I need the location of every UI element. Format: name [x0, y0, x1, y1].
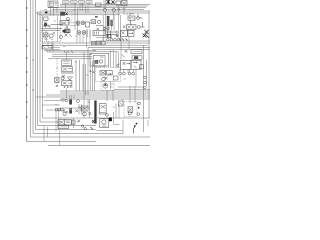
wire down from cluster 2 — [47, 127, 49, 137]
right edge connector wire — [118, 86, 144, 88]
valve rect 2 in B2 — [107, 70, 113, 75]
small X right — [78, 120, 81, 123]
gauge circle bottom manifold — [63, 112, 66, 115]
circle right of D top — [138, 102, 141, 105]
wire motor to return — [59, 130, 61, 146]
lower horizontal bus wires — [60, 90, 150, 92]
bus wire — [47, 51, 92, 53]
wire drops — [63, 95, 72, 100]
wire — [91, 61, 93, 92]
wire elbow — [114, 112, 120, 124]
top label strip — [63, 1, 93, 3]
left mid gauge circle — [97, 20, 100, 23]
dark return stand pipe — [94, 101, 96, 124]
bus wire — [60, 5, 148, 7]
wire — [79, 60, 81, 91]
aux valve dark rects row — [63, 30, 66, 33]
small pilot circle — [118, 9, 120, 11]
left supply bus wire 7 — [43, 16, 61, 119]
aux valve rect 2 — [66, 30, 69, 33]
ladder rungs — [106, 12, 119, 38]
small valve cross — [105, 28, 109, 30]
accumulator frame left — [102, 15, 104, 41]
valve rect in box A — [43, 33, 48, 37]
component ticks on wire — [64, 51, 73, 53]
bottom long return line — [48, 145, 150, 147]
line end tick — [95, 16, 98, 17]
bus wire — [52, 8, 144, 10]
junction block dark — [45, 12, 47, 14]
gauge circle in box B — [67, 17, 70, 20]
valve symbols box2 — [133, 61, 138, 68]
right mid labeled box — [131, 50, 142, 54]
wire — [104, 0, 106, 9]
gauge circle in box A — [49, 34, 53, 38]
wire near bar — [89, 99, 91, 118]
relief valve arrows in box A — [42, 22, 64, 31]
pilot check valve — [55, 78, 59, 83]
cross in B2 — [105, 77, 108, 80]
wire — [94, 61, 96, 92]
lower sub box lines — [60, 126, 68, 128]
wire — [97, 130, 124, 132]
solenoid dark rect lower — [69, 108, 72, 114]
tiny text labels — [44, 8, 134, 133]
manifold tick row — [64, 86, 73, 88]
bottom right connector — [122, 120, 124, 134]
gauge circle near filter — [106, 114, 109, 117]
arrowhead ticks row — [119, 39, 128, 41]
wire — [82, 64, 84, 91]
bus wire — [60, 92, 150, 94]
wire — [73, 118, 75, 128]
filter cross — [100, 105, 106, 112]
right edge circle 3 — [144, 86, 147, 89]
small box left of D — [119, 101, 124, 106]
tick crosses on verticals — [89, 70, 94, 73]
small circle right of box — [117, 64, 119, 66]
bus wire — [36, 12, 150, 14]
junction circle b — [65, 99, 67, 101]
bus wire — [46, 94, 150, 96]
vertical wires right of manifold — [75, 60, 77, 91]
wire — [69, 23, 80, 26]
wire drops from top labels — [51, 3, 131, 30]
bus wire — [60, 98, 150, 100]
accumulator frame right — [119, 15, 121, 41]
inner tick — [120, 102, 123, 105]
bus wire — [52, 55, 92, 57]
top dark scribble cluster — [106, 0, 115, 5]
wire — [128, 36, 130, 49]
solenoid rect in box A — [44, 17, 48, 20]
wire — [83, 52, 85, 95]
upper right valve cluster 1 — [128, 13, 143, 20]
filter box — [100, 104, 107, 115]
wire — [113, 12, 115, 20]
pump circle B1 — [76, 21, 80, 25]
motor X 1 — [59, 121, 64, 124]
dark marks near standpipe bottom — [91, 120, 95, 130]
right top valve cluster — [121, 30, 135, 36]
aux gauge circle — [59, 35, 62, 38]
valve block between bars — [106, 32, 117, 38]
manifold box 3 — [62, 81, 72, 86]
bus wire — [88, 46, 150, 48]
lower accumulator box — [93, 31, 105, 36]
left supply bus wire 3 — [33, 0, 124, 134]
pump triangle — [104, 83, 108, 85]
hatch fill — [134, 56, 138, 59]
cooler box bottom center — [100, 119, 109, 128]
cooler lines — [102, 125, 106, 127]
bus wire — [52, 53, 92, 55]
pilot valve circle PV1 — [103, 8, 106, 11]
junction rect — [42, 46, 52, 49]
right edge wire 2 — [146, 60, 148, 86]
bus wire — [92, 51, 118, 53]
solenoid X in box B — [65, 12, 68, 15]
filled junction block — [109, 117, 112, 121]
side rect in B2 — [113, 76, 118, 80]
pilot tick — [56, 85, 58, 87]
solenoid rect in box B — [61, 12, 65, 15]
manifold cross — [68, 78, 71, 81]
connector elbow — [134, 127, 136, 134]
circle right of D bottom — [137, 113, 140, 116]
wire — [110, 84, 114, 87]
manifold box 3 cross — [63, 82, 72, 85]
wire — [49, 49, 51, 52]
top-left relay box K1 — [48, 1, 58, 7]
valve symbols box1 — [123, 62, 131, 65]
valve arrows left of boxes — [122, 50, 128, 58]
solenoid dark rect upper — [69, 100, 72, 105]
arrow wires under bars — [107, 31, 119, 38]
small circle a — [81, 125, 83, 127]
pump dashed box C — [101, 81, 114, 90]
gauge circle under valve box — [83, 112, 87, 116]
bus wire — [92, 49, 150, 51]
valve cross c — [76, 110, 78, 112]
junction dot — [138, 107, 140, 109]
connector wires to dashed box — [96, 66, 104, 68]
top small box left — [96, 3, 102, 7]
pilot dashed box B2 — [96, 68, 121, 82]
left supply bus wire 2 — [31, 0, 151, 137]
bus wire — [42, 44, 148, 46]
vertical wires right of engine — [110, 50, 118, 68]
top-right solenoid boxes — [116, 1, 127, 6]
valve cross in D — [129, 108, 132, 112]
valve rect in D — [128, 107, 133, 113]
cross near bar — [88, 112, 91, 115]
junction circle c — [77, 100, 80, 103]
wire — [52, 43, 54, 52]
motor X 2 — [66, 121, 70, 123]
terminal box row — [55, 108, 63, 111]
aux pump circle 2 — [82, 31, 86, 35]
pipe ticks — [78, 107, 82, 109]
mid-right double valve box 1 — [121, 60, 132, 69]
pump circle B2 — [81, 21, 85, 25]
left supply bus wire 6 — [40, 11, 62, 122]
valve cross in box A — [44, 34, 48, 36]
right edge wire 3 — [143, 45, 145, 132]
bus wire — [48, 58, 92, 60]
lower sub box — [58, 125, 69, 128]
flow ticks on supply bus — [26, 8, 34, 117]
right edge wire 1 — [148, 11, 150, 118]
right edge circle 1 — [144, 76, 147, 79]
wire — [85, 64, 87, 95]
wire — [120, 36, 122, 60]
valve rect below box B — [60, 21, 69, 25]
wire — [118, 10, 120, 15]
manifold box 1 label — [63, 62, 69, 64]
valve cross b — [66, 111, 68, 113]
engine inner box — [93, 55, 105, 66]
bus wire — [42, 42, 150, 44]
label lines — [133, 51, 141, 53]
left mid cluster: solenoid rect — [91, 20, 96, 24]
cross near stand pipe — [82, 107, 87, 110]
bus wire — [40, 10, 150, 12]
manifold box 2 — [62, 66, 72, 71]
left mid wires — [96, 26, 103, 30]
manifold wires — [61, 73, 74, 78]
check valve symbols — [65, 26, 71, 33]
left supply bus wire 5 — [38, 11, 96, 126]
wire — [89, 61, 91, 92]
center-left manifold box 1 — [62, 60, 72, 65]
bus wire — [38, 14, 120, 16]
misc wires — [42, 38, 136, 119]
wire down from cluster — [43, 126, 45, 142]
small valve under bars — [104, 27, 109, 30]
solenoid X lower — [69, 108, 71, 110]
left supply bus wire 1 — [27, 0, 97, 142]
motor box with X 2 — [65, 120, 71, 125]
wire — [46, 49, 48, 52]
right edge arrow marks — [143, 30, 150, 38]
aux pump circle 1 — [77, 31, 81, 35]
small circle b — [84, 127, 86, 129]
pilot line dashed — [56, 58, 58, 86]
right short vertical — [147, 120, 149, 126]
pilot check cross — [55, 78, 58, 81]
right mid hatched box — [132, 56, 142, 60]
gauge circle in D — [128, 112, 131, 115]
manifold gauge circle — [61, 77, 64, 80]
spring symbol in box A — [45, 32, 56, 40]
engine outer box — [90, 53, 109, 66]
accumulator bar 1 — [107, 16, 109, 25]
gauge circles under mid right — [119, 69, 135, 75]
engine circle — [99, 60, 102, 63]
valve rect 1 in B2 — [100, 70, 106, 75]
wires from terminal row — [56, 111, 59, 132]
gauge circle in B2 — [102, 77, 106, 81]
manifold box 2 cross — [63, 68, 72, 71]
valve cross a — [63, 110, 65, 112]
accumulator bar 2 — [111, 20, 113, 26]
pump crosses — [77, 22, 84, 24]
valve arrows below box B — [61, 22, 70, 24]
aux crosses — [65, 34, 72, 37]
drop wires to bus — [77, 30, 90, 48]
lower valve strip row — [92, 41, 106, 45]
motor box with X 1 — [58, 120, 65, 125]
small side box — [139, 65, 143, 69]
junction circle a — [62, 99, 64, 101]
junction rect cross — [43, 46, 46, 48]
engine small rect — [95, 60, 98, 63]
wire in box A — [45, 16, 58, 42]
main control valve dashed box A — [41, 16, 61, 42]
connector dot 2 — [136, 123, 138, 125]
pilot group dashed box B — [61, 11, 73, 20]
pilot valve circle PV2 — [112, 8, 115, 11]
pipe pair — [79, 104, 82, 115]
valve box near stand pipe — [81, 106, 88, 111]
bottom right dashed box D — [124, 102, 137, 117]
upper horizontal bus wires — [60, 3, 150, 5]
wire — [87, 47, 89, 95]
engine tick — [100, 56, 104, 58]
cooler circle — [102, 120, 106, 124]
aux pump crosses — [78, 32, 85, 34]
tank return wire — [114, 89, 150, 91]
valve arrows in B2 — [101, 71, 111, 74]
long wire y118 — [60, 117, 150, 119]
right edge circle 2 — [144, 81, 147, 84]
manifold stem wires — [66, 52, 68, 95]
upper right valve cluster 2 — [123, 20, 144, 29]
bus wire — [48, 7, 146, 9]
pipes right of filter — [116, 104, 119, 119]
left mid cluster cross — [92, 21, 95, 23]
left supply bus wire 4 — [36, 0, 97, 130]
wire — [108, 15, 114, 31]
accumulator box ticks — [95, 32, 99, 35]
bus wire — [36, 96, 151, 98]
port circles row — [107, 38, 120, 41]
connector dot 1 — [134, 125, 136, 127]
small box right of pumps — [86, 22, 90, 27]
wire — [60, 107, 90, 109]
bus wire — [44, 50, 96, 52]
mid-right double valve box 2 — [131, 60, 141, 69]
right stepping bus wires — [96, 40, 150, 42]
wire — [88, 29, 91, 37]
pump circle P1 — [103, 83, 108, 88]
small end box — [72, 120, 75, 124]
